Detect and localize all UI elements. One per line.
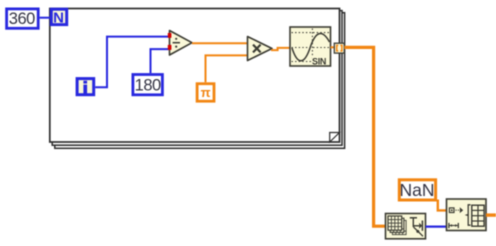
constant 180	[133, 75, 163, 95]
main grid	[388, 216, 402, 230]
wire multiply to sine	[271, 48, 290, 50]
sine function	[290, 27, 331, 66]
i terminal	[77, 79, 94, 95]
constant 360	[7, 9, 39, 28]
coercion dot top	[168, 33, 172, 38]
wire i to divide	[95, 37, 169, 88]
wire Array Size to Initialize Array	[426, 226, 447, 228]
loop corner fold	[330, 133, 340, 143]
svg-text:360: 360	[9, 10, 35, 28]
bracket	[467, 205, 471, 225]
Initialize Array node	[447, 199, 487, 231]
wire pi to multiply	[206, 55, 248, 82]
constant NaN	[399, 180, 435, 200]
for loop frame shadow 3	[55, 13, 345, 149]
element square	[449, 208, 454, 213]
for loop frame	[50, 9, 340, 143]
wire 360 to N	[40, 17, 51, 19]
wire sine to tunnel	[331, 46, 335, 48]
caliper glyph	[410, 218, 423, 237]
divide function	[168, 31, 192, 56]
svg-text:180: 180	[135, 77, 161, 95]
multiply function	[248, 37, 273, 61]
constant pi	[197, 84, 214, 102]
Array Size node	[386, 214, 426, 239]
coercion dot bottom	[168, 45, 172, 50]
array grid 2x4	[472, 205, 484, 226]
N terminal	[51, 9, 66, 26]
svg-text:π: π	[201, 85, 211, 100]
dimension size glyph	[449, 223, 458, 228]
shadow grid 3	[392, 220, 406, 234]
for loop frame shadow 2	[52, 11, 342, 146]
auto-index tunnel	[334, 43, 344, 53]
shadow grid 2	[390, 218, 404, 232]
dotted arrow	[456, 209, 460, 211]
wire divide to multiply	[192, 42, 248, 44]
svg-text:N: N	[53, 9, 64, 26]
svg-text:NaN: NaN	[399, 180, 434, 200]
wire NaN to Initialize Array	[438, 200, 447, 211]
array wire tunnel to Array Size	[344, 47, 385, 226]
wire 180 to divide	[151, 49, 170, 73]
output array wire	[486, 213, 496, 216]
svg-text:SIN: SIN	[312, 56, 326, 66]
